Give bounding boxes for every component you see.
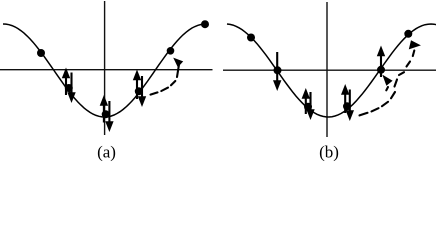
panel (b) dot at right crossing <box>377 66 385 74</box>
panel (b) left pair up-spin arrow shaft <box>305 97 307 114</box>
panel (a) middle pair down-spin arrow head <box>105 121 113 132</box>
panel (b) dot at left crossing <box>274 66 282 74</box>
panel (a) right pair down-spin arrow head <box>138 96 146 107</box>
panel (b) dashed arc connector to branch arrowhead <box>386 87 388 90</box>
panel (a) right pair up-spin arrow head <box>133 70 141 81</box>
panel (a) dashed transition arc (dashes) <box>151 92 158 94</box>
panel (a) middle pair dot <box>102 110 110 118</box>
panel (b) left pair down-spin arrow head <box>306 109 314 120</box>
panel (a) electron dot upper-right <box>167 47 175 55</box>
panel (b) dispersion curve <box>227 24 436 117</box>
panel (a) vertical axis <box>104 1 106 135</box>
panel (a) middle pair up-spin arrow head <box>100 95 108 106</box>
panel (a) left pair up-spin arrow head <box>62 68 70 79</box>
panel (a) right pair down-spin arrow shaft <box>141 76 143 98</box>
panel (a) right pair up-spin arrow shaft <box>136 78 138 99</box>
panel (a) left pair down-spin arrow head <box>67 92 75 103</box>
panel (b) right pair down-spin arrow head <box>346 110 354 121</box>
panel (b) electron dot upper-left <box>247 34 255 42</box>
svg-text:(a): (a) <box>97 143 116 162</box>
svg-text:(b): (b) <box>319 143 339 162</box>
panel (b) left pair up-spin arrow head <box>302 88 310 99</box>
panel (a) horizontal axis <box>0 69 213 71</box>
panel (b) right pair down-spin arrow shaft <box>349 90 351 113</box>
panel (a) middle pair up-spin arrow shaft <box>103 104 105 123</box>
panel (b) lone up-spin arrow at right crossing shaft <box>380 54 382 77</box>
panel (b) dashed transition arc (dashes) <box>360 113 368 116</box>
panel (b) lone down-spin arrow at left crossing shaft <box>276 52 278 82</box>
panel (a) dispersion curve <box>3 24 205 117</box>
panel (a) right pair dot <box>135 87 143 95</box>
panel (b) horizontal axis <box>223 69 436 71</box>
panel (b) right pair up-spin arrow shaft <box>344 93 346 113</box>
panel (a) left pair down-spin arrow shaft <box>70 73 72 95</box>
panel (b) lone up-spin arrow at right crossing head <box>377 46 385 57</box>
panel (b) dashed arc main arrowhead <box>409 40 421 49</box>
panel (b) left pair down-spin arrow shaft <box>309 92 311 111</box>
panel (b) right pair up-spin arrow head <box>341 84 349 95</box>
panel (a) left pair up-spin arrow shaft <box>65 76 67 95</box>
panel (b) dashed arc branch arrowhead <box>382 75 392 86</box>
panel (a) middle pair down-spin arrow shaft <box>108 101 110 123</box>
panel (a) left pair dot <box>65 84 73 92</box>
panel (b) lone down-spin arrow at left crossing head <box>273 80 281 91</box>
panel (b) vertical axis <box>326 2 328 137</box>
panel (a) electron dot upper-left <box>37 49 45 57</box>
panel (b) right pair dot <box>343 102 351 110</box>
panel (b) left pair dot <box>304 103 312 111</box>
panel (a) electron dot top-right end <box>201 20 209 28</box>
panel (b) electron dot upper-right <box>404 30 412 38</box>
panel (a) dashed arc arrowhead <box>173 58 183 68</box>
